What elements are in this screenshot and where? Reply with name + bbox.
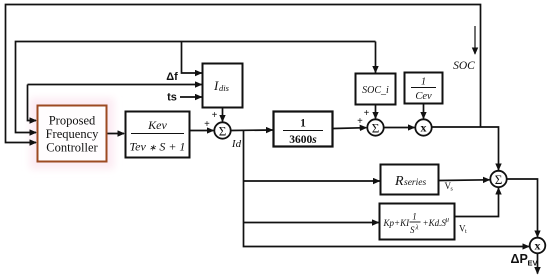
svg-text:Σ: Σ: [372, 121, 380, 136]
svg-text:+: +: [357, 116, 363, 127]
svg-text:1: 1: [300, 118, 306, 130]
svg-text:+: +: [212, 110, 218, 121]
svg-text:x: x: [421, 121, 427, 135]
wire: multiplier 2 output: [537, 254, 539, 274]
wire: branch to Rseries: [244, 180, 380, 182]
svg-text:Σ: Σ: [219, 124, 227, 139]
wire: delta-f net inner frame: [16, 42, 376, 133]
block: Kev transfer function: [126, 112, 190, 158]
svg-text:3600s: 3600s: [289, 134, 317, 146]
wire: 1/Cev to multiplier 1: [423, 104, 425, 119]
svg-text:+: +: [204, 119, 210, 130]
wire: multiplier 1 output to sum 3 (SOC line): [433, 127, 499, 170]
block: 1/3600s: [274, 112, 333, 147]
controller glow: [30, 98, 114, 169]
svg-text:μ: μ: [446, 216, 450, 224]
svg-text:series: series: [404, 178, 426, 188]
svg-text:EV: EV: [528, 259, 538, 268]
svg-text:Controller: Controller: [46, 141, 98, 155]
wire: SOC_i to sum 2: [375, 105, 377, 119]
svg-text:SOC: SOC: [453, 60, 475, 72]
svg-text:Tev ∗ S + 1: Tev ∗ S + 1: [130, 140, 186, 154]
svg-text:+: +: [364, 108, 370, 119]
sum 2: [367, 119, 383, 135]
wire: ts input: [180, 96, 202, 98]
wire: Id branch down and bottom run to multiplier: [244, 131, 529, 247]
wire: controller to Kev block: [108, 133, 125, 135]
svg-text:Kev: Kev: [147, 118, 167, 132]
wire: middle net into controller: [28, 85, 37, 121]
svg-text:Σ: Σ: [495, 172, 503, 187]
wire: sum 1 to 1/3600s block: [231, 129, 273, 132]
wire: SOC direction arrow: [474, 26, 476, 54]
wire: delta-f branch into I_dis: [182, 42, 202, 74]
wire: middle net into I_dis: [28, 84, 202, 86]
svg-text:S: S: [410, 225, 415, 235]
block: Rseries: [381, 165, 439, 195]
block: SOC_i: [356, 74, 396, 105]
wire: drop to SOC_i box: [375, 42, 377, 73]
svg-text:Id: Id: [231, 138, 242, 150]
svg-text:1: 1: [412, 212, 417, 222]
block: 1/Cev: [405, 73, 443, 104]
multiplier 2: [530, 238, 546, 254]
svg-text:λ: λ: [415, 224, 419, 232]
svg-text:+Kd.S: +Kd.S: [423, 218, 447, 228]
sum 1: [214, 122, 230, 138]
wire: 1/3600s to sum 2: [334, 127, 367, 130]
svg-text:Δf: Δf: [166, 71, 178, 83]
block: Proposed Frequency Controller: [38, 106, 107, 162]
svg-text:1: 1: [421, 77, 426, 88]
svg-text:R: R: [394, 174, 404, 189]
svg-text:Kp+KI: Kp+KI: [383, 218, 411, 228]
sum 3: [490, 171, 506, 187]
wire: Kev block to sum 1: [191, 130, 214, 132]
svg-text:x: x: [535, 239, 541, 253]
multiplier 1: [415, 119, 431, 135]
svg-text:Cev: Cev: [415, 91, 432, 102]
svg-text:ΔP: ΔP: [511, 252, 528, 266]
block: I_dis: [203, 64, 243, 108]
wire: I_dis to sum 1: [222, 109, 224, 122]
wire: sum 2 to multiplier 1: [384, 127, 414, 129]
svg-text:Proposed: Proposed: [49, 113, 96, 127]
svg-text:SOC_i: SOC_i: [362, 85, 389, 96]
svg-text:dis: dis: [219, 83, 230, 93]
wire: sum 3 to multiplier 2: [507, 179, 538, 237]
svg-text:ts: ts: [167, 92, 177, 104]
wire: Vt up into sum 3: [456, 188, 499, 217]
wire: SOC feedback outer frame: [6, 5, 481, 143]
wire: Rseries Vs to sum 3: [440, 179, 490, 182]
svg-text:Frequency: Frequency: [46, 127, 100, 141]
block: fractional PID: [380, 204, 455, 240]
wire: branch to fractional PID block: [244, 222, 379, 224]
